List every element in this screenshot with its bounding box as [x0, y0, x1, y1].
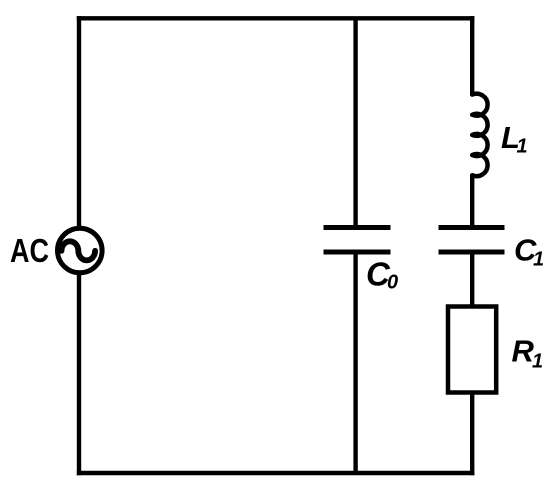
wire left upper (top corner to AC source) — [77, 16, 81, 228]
wire bottom horizontal — [77, 471, 475, 475]
capacitor C0 bottom plate — [324, 250, 391, 255]
wire right branch bottom (R1 to bottom wire) — [470, 393, 474, 476]
wire between C1 and R1 — [470, 255, 474, 307]
capacitor C0 top plate — [324, 225, 391, 230]
capacitor C1 top plate — [439, 225, 505, 230]
svg-text:AC: AC — [10, 232, 49, 269]
svg-text:1: 1 — [517, 136, 528, 158]
wire left lower (AC source to bottom corner) — [77, 273, 81, 475]
svg-text:0: 0 — [387, 272, 398, 294]
label C0 — [366, 256, 398, 294]
label R1 — [512, 334, 544, 373]
AC source V1 circle — [58, 228, 103, 273]
wire middle branch lower (C0 to bottom wire) — [353, 255, 357, 474]
svg-text:1: 1 — [532, 351, 543, 373]
wire right branch top (top wire to inductor) — [470, 16, 474, 95]
wire middle branch upper (top wire to C0) — [353, 18, 357, 225]
inductor L1 coil — [472, 94, 487, 176]
resistor R1 body — [448, 307, 496, 393]
AC source sine wave — [62, 241, 96, 260]
svg-text:1: 1 — [533, 249, 544, 271]
wire top horizontal — [77, 16, 475, 20]
label C1 — [514, 233, 544, 271]
wire between inductor and C1 — [470, 175, 474, 225]
capacitor C1 bottom plate — [439, 250, 505, 255]
label L1 — [501, 120, 528, 158]
